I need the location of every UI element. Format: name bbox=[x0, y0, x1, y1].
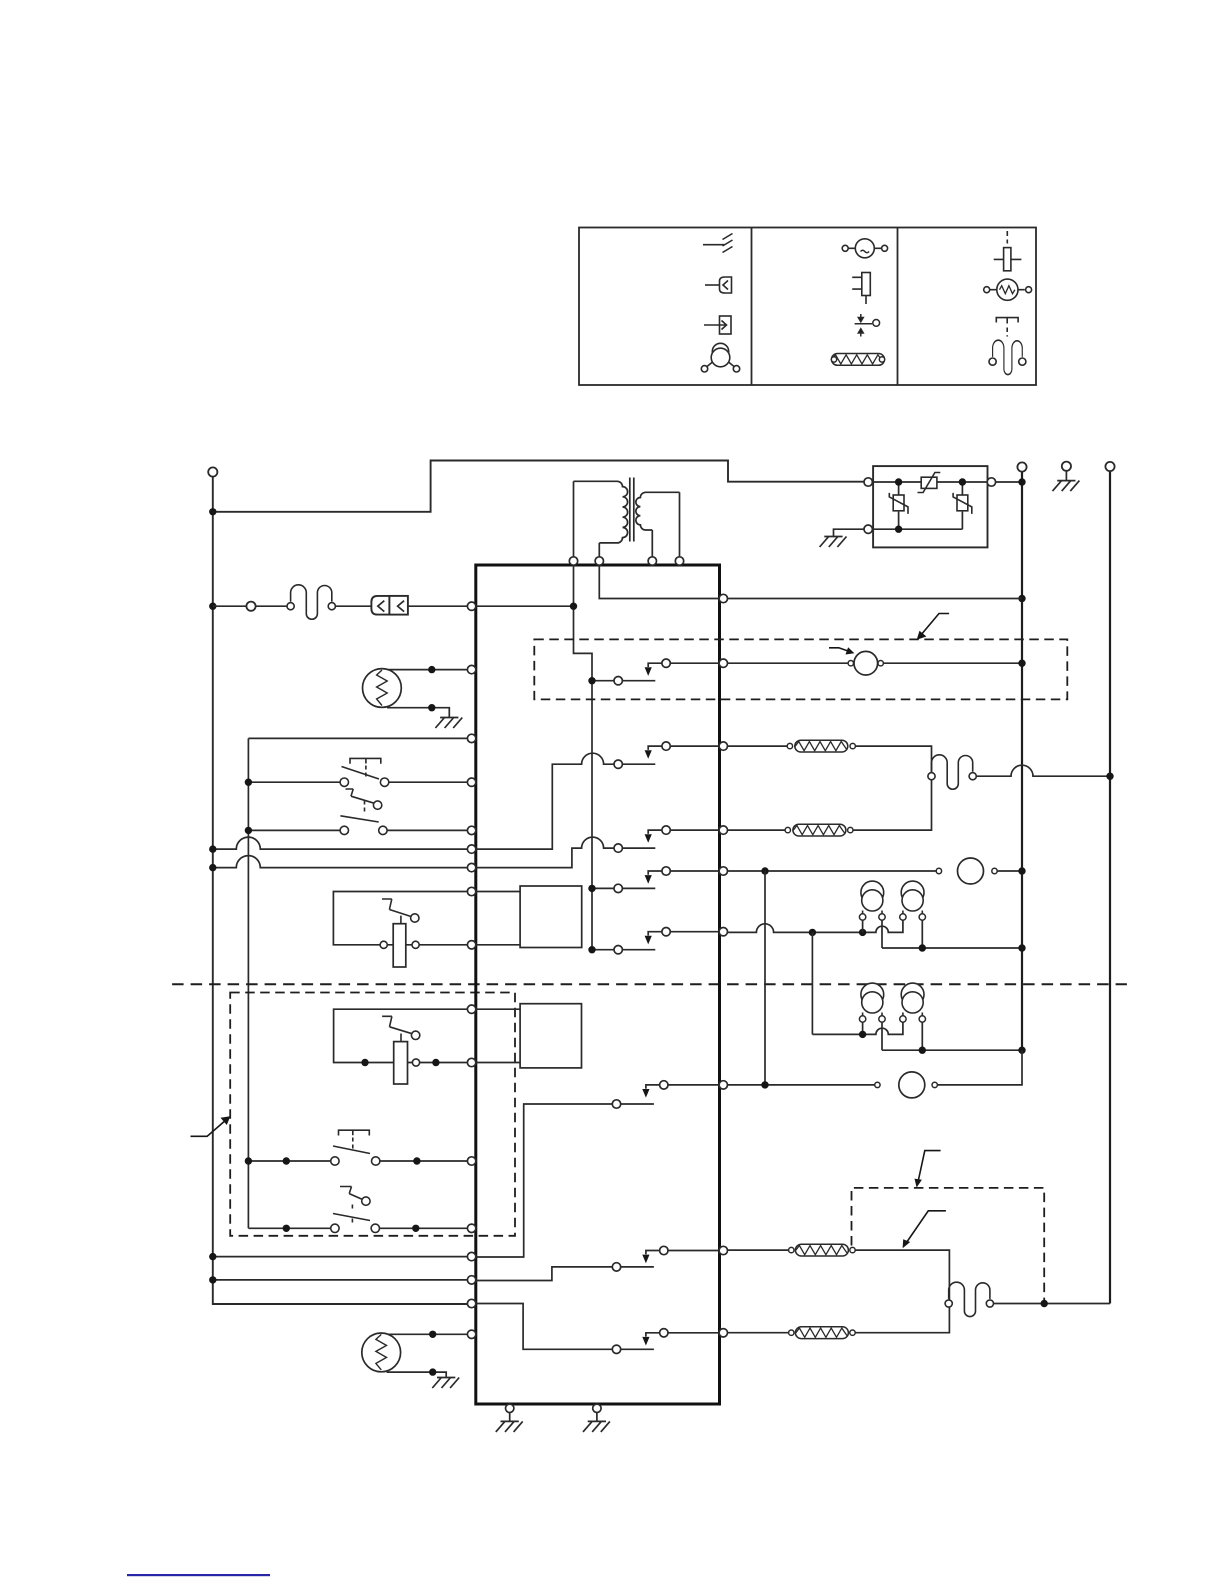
junction oven row2 b bbox=[412, 1225, 419, 1232]
pin PCB top 1 bbox=[569, 557, 577, 565]
junction TS2 left bbox=[361, 1059, 368, 1066]
relay contact: oven heater B bbox=[476, 1304, 720, 1354]
wire varistor internal bottom bbox=[872, 528, 962, 530]
heater H1 bbox=[795, 740, 848, 752]
junction V1 top bbox=[895, 478, 902, 485]
pin PCB left: row c bbox=[467, 1252, 475, 1260]
oven motor OM bbox=[899, 1072, 925, 1098]
door switch SW1 bbox=[340, 758, 389, 786]
pin PCB right: secondary return bbox=[719, 594, 727, 602]
dashed enclosure oven heater unit bbox=[852, 1188, 1045, 1304]
thermal fuse F1 bbox=[291, 585, 332, 619]
wire feed row c bbox=[213, 1256, 468, 1258]
dashed divider between halves bbox=[172, 983, 1127, 985]
junction bus / row c bbox=[209, 1253, 216, 1260]
junction V1 bottom bbox=[895, 526, 902, 533]
wire turntable motor row bbox=[728, 870, 1023, 872]
junction feed / oven row1 bbox=[245, 1157, 252, 1164]
legend: thermal fuse symbol bbox=[989, 340, 1026, 374]
junction TH2 top bbox=[429, 1331, 436, 1338]
legend column divider 1 bbox=[751, 228, 753, 386]
legend: heater symbol bbox=[832, 354, 885, 366]
wire lamp riser x=812 bbox=[811, 932, 813, 1034]
junction OL2 / lamp return bbox=[919, 944, 926, 951]
pin PCB right: heater upper bbox=[719, 742, 727, 750]
wire L1 top run bbox=[213, 461, 865, 512]
wire transformer secondary return bbox=[599, 565, 719, 599]
wire interlock feed vertical x=248 bbox=[247, 738, 249, 1228]
wire OL3 left stem bbox=[862, 1022, 864, 1034]
legend table frame bbox=[579, 228, 1036, 386]
pin PCB right: fan bbox=[719, 659, 727, 667]
varistor V1 leads bbox=[898, 482, 900, 529]
pin PCB left: TS1 a bbox=[467, 887, 475, 895]
splice on fuse row bbox=[246, 602, 255, 611]
pin PCB right: turntable motor bbox=[719, 867, 727, 875]
pin PCB left: door row1 bbox=[467, 778, 475, 786]
wire OL4 right drop bbox=[921, 1022, 923, 1050]
junction oven row1 a bbox=[283, 1157, 290, 1164]
varistor V2 leads bbox=[961, 482, 963, 529]
junction lower lamp row / OL3 bbox=[859, 1031, 866, 1038]
pin PCB bottom 1 bbox=[506, 1404, 514, 1412]
wire oven heater H3 row bbox=[728, 1250, 950, 1300]
legend: thermostat body symbol bbox=[852, 273, 870, 305]
wire monitor row bbox=[248, 737, 467, 739]
junction motor contact / riser bbox=[588, 885, 595, 892]
control unit PCB box bbox=[476, 565, 720, 1404]
pointer to fan motor bbox=[829, 647, 854, 654]
junction fan contact / riser bbox=[588, 677, 595, 684]
oven switch SW4 bbox=[331, 1130, 380, 1165]
legend: chassis ground symbol bbox=[703, 234, 733, 253]
legend: motor symbol bbox=[701, 343, 739, 372]
junction TH1 bottom bbox=[428, 704, 435, 711]
terminal L1 bbox=[208, 467, 217, 476]
wire oven lamp row (hops riser) bbox=[728, 920, 903, 932]
thermostat TS1 body bbox=[393, 924, 406, 967]
junction primary riser / mains bbox=[570, 603, 577, 610]
wire fan feed bbox=[728, 662, 849, 664]
display unit box lower bbox=[520, 1004, 581, 1068]
pointer to lower-left enclosure bbox=[191, 1116, 231, 1136]
wire thermistor TH1 top bbox=[387, 669, 468, 671]
wire oven switch row 1 bbox=[248, 1160, 467, 1162]
pin PCB top 4 bbox=[675, 557, 683, 565]
splice TS1 right bbox=[412, 941, 419, 948]
legend: thermistor symbol bbox=[984, 279, 1032, 300]
wire door switch row 1 bbox=[248, 781, 467, 783]
pin varistor box right bbox=[987, 478, 995, 486]
ground PCB 2 bbox=[583, 1421, 610, 1432]
junction oven motor row / riser bbox=[761, 1081, 768, 1088]
pin PCB left: oven row1 bbox=[467, 1157, 475, 1165]
thermistor TH1 bbox=[363, 669, 402, 708]
door switch SW2 monitor contact bbox=[346, 789, 382, 814]
pin PCB left: feed b bbox=[467, 863, 475, 871]
wire OL1 left stem bbox=[862, 920, 864, 932]
pin PCB top 2 bbox=[595, 557, 603, 565]
terminal bus A bbox=[1017, 462, 1026, 471]
junction motor row / riser bbox=[761, 867, 768, 874]
wire relay feed b (hops interlock feed) bbox=[213, 856, 468, 868]
relay contact: heater lower bbox=[476, 826, 720, 868]
relay contact: oven heater A bbox=[476, 1246, 720, 1280]
wire secondary return to bus A bbox=[728, 598, 1023, 600]
pin PCB left: TH2 bbox=[467, 1330, 475, 1338]
relay contact: oven motor bbox=[476, 1081, 720, 1257]
connector pair CN bbox=[371, 596, 408, 615]
pin PCB left: row d bbox=[467, 1276, 475, 1284]
pin varistor box left bottom bbox=[864, 525, 872, 533]
dashed enclosure fan unit bbox=[534, 639, 1067, 699]
wire display lower lead 2 bbox=[476, 1062, 520, 1064]
wire OL1 right drop bbox=[881, 920, 883, 948]
pin PCB left: TS2 b bbox=[467, 1058, 475, 1066]
terminal bus B bbox=[1105, 462, 1114, 471]
wire thermostat TS2 loop bbox=[334, 1009, 468, 1062]
wire thermostat TS1 loop bbox=[333, 892, 467, 945]
junction bus B / F2 bbox=[1106, 773, 1113, 780]
oven lamp OL1 bbox=[859, 881, 885, 920]
pin PCB right: oven heater B bbox=[719, 1329, 727, 1337]
footer rule bbox=[127, 1574, 270, 1576]
pin PCB right: oven motor bbox=[719, 1081, 727, 1089]
junction TH1 top bbox=[428, 666, 435, 673]
wire lamp return bbox=[882, 947, 1022, 949]
relay contact: oven lamp bbox=[592, 928, 720, 954]
oven lamp OL2 bbox=[900, 881, 926, 920]
bus A vertical x=1022 bbox=[1021, 472, 1023, 1051]
pin PCB left: TH1 bbox=[467, 665, 475, 673]
wire OL3 right drop bbox=[881, 1022, 883, 1050]
junction OL4 / return bbox=[919, 1047, 926, 1054]
wire F2 to bus B (hops bus A) bbox=[976, 765, 1110, 776]
splice TS2 right bbox=[412, 1059, 419, 1066]
wire oven switch row 2 bbox=[248, 1227, 467, 1229]
pin PCB bottom 2 bbox=[593, 1404, 601, 1412]
wire display upper lead 2 bbox=[476, 944, 520, 946]
junction row1 / feed bbox=[245, 779, 252, 786]
wire oven motor row bbox=[728, 1050, 1023, 1085]
varistor V1 bbox=[889, 493, 908, 514]
pin PCB left: oven row2 bbox=[467, 1224, 475, 1232]
junction lamp contact / riser bbox=[588, 946, 595, 953]
wire PCB internal: mains to relay common riser bbox=[476, 605, 574, 607]
wire display lower lead 1 bbox=[476, 1008, 520, 1010]
oven switch SW6 bbox=[331, 1214, 380, 1233]
wire fan return bbox=[883, 662, 1022, 664]
varistor V2 bbox=[953, 493, 972, 514]
pointer to oven heater unit bbox=[915, 1151, 941, 1188]
ground varistor bbox=[820, 537, 847, 548]
thermostat TS2 contact bbox=[382, 1016, 420, 1041]
wire thermistor TH1 bottom bbox=[387, 708, 449, 718]
ground PCB 1 bbox=[496, 1421, 523, 1432]
fan motor FM bbox=[854, 651, 878, 675]
junction V2 top bbox=[959, 478, 966, 485]
junction lamp row / OL1 left bbox=[859, 929, 866, 936]
wire varistor internal top bbox=[872, 481, 988, 483]
pin PCB left: TS2 a bbox=[467, 1005, 475, 1013]
wire OL2 right drop bbox=[921, 920, 923, 948]
heater H2 bbox=[793, 824, 846, 836]
varistor module box bbox=[873, 466, 987, 547]
pin PCB top 3 bbox=[648, 557, 656, 565]
legend: thermostat contact symbol bbox=[996, 318, 1018, 337]
wire oven heater H4 row bbox=[728, 1307, 950, 1333]
bus B vertical x=1110 bbox=[1109, 471, 1111, 1303]
pin PCB right: oven lamp bbox=[719, 928, 727, 936]
thermostat TS1 contact bbox=[382, 899, 419, 924]
junction bus A / fan return bbox=[1018, 660, 1025, 667]
junction left bus / fuse wire bbox=[209, 603, 216, 610]
ground TH1 bbox=[435, 718, 462, 729]
wire feed row d bbox=[213, 1279, 468, 1281]
junction oven row1 b bbox=[413, 1157, 420, 1164]
thermostat TS2 body bbox=[394, 1042, 408, 1084]
pin PCB right: oven heater A bbox=[719, 1246, 727, 1254]
junction TH2 bottom bbox=[429, 1368, 436, 1375]
display unit box upper bbox=[520, 886, 582, 948]
wire thermistor TH2 top bbox=[387, 1333, 468, 1335]
junction row2 / feed bbox=[245, 827, 252, 834]
pin varistor box left top bbox=[864, 478, 872, 486]
junction left bus / top run bbox=[209, 508, 216, 515]
turntable motor TTM bbox=[958, 858, 984, 884]
wire left bus bbox=[213, 477, 468, 1305]
legend: tab connector symbol bbox=[704, 316, 731, 334]
wire relay feed a (hops interlock feed) bbox=[213, 837, 468, 849]
junction bus A / lamp return bbox=[1018, 944, 1025, 951]
transformer T1 bbox=[574, 478, 680, 558]
relay contact: heater upper bbox=[476, 742, 720, 849]
door switch SW3 bbox=[340, 816, 387, 835]
pointer to fan unit bbox=[917, 614, 949, 640]
thermal fuse F3 bbox=[949, 1282, 990, 1316]
wire PCB ground stem 2 bbox=[596, 1413, 598, 1422]
heater H4 bbox=[795, 1327, 848, 1339]
pin PCB left: feed a bbox=[467, 845, 475, 853]
heater H3 bbox=[795, 1244, 848, 1256]
splice TS1 left bbox=[380, 941, 387, 948]
floating chassis ground terminal bbox=[1062, 462, 1071, 471]
wire heater H2 row bbox=[728, 780, 932, 830]
varistor V3 bbox=[918, 473, 941, 493]
relay contact: turntable motor bbox=[592, 867, 720, 893]
pin PCB left: monitor row bbox=[467, 734, 475, 742]
wire door switch row 2 bbox=[248, 829, 467, 831]
legend: thermal cutout symbol bbox=[994, 231, 1022, 271]
oven switch SW5 monitor contact bbox=[340, 1187, 370, 1226]
legend: receptacle connector symbol bbox=[705, 277, 732, 293]
junction bus A / secondary return bbox=[1018, 595, 1025, 602]
dashed enclosure lower-left bbox=[230, 993, 515, 1236]
thermal fuse F2 bbox=[932, 755, 973, 789]
wire lower lamp return bbox=[882, 1049, 1022, 1051]
pin PCB left: bus return bbox=[467, 1299, 475, 1307]
junction TS2 out bbox=[432, 1059, 439, 1066]
wire oven lamp row lower (hops OL3 right drop) bbox=[812, 1022, 903, 1034]
oven lamp OL3 bbox=[859, 983, 885, 1022]
wire F3 to bus B bbox=[994, 1303, 1111, 1305]
junction bus A / varistor bbox=[1018, 478, 1025, 485]
wire varistor ground lead bbox=[834, 529, 865, 536]
ground floating bbox=[1053, 481, 1080, 492]
pin PCB left: mains bbox=[467, 602, 475, 610]
ground TH2 bbox=[432, 1378, 459, 1389]
pin PCB left: door row2 bbox=[467, 826, 475, 834]
pointer to oven heater wire bbox=[903, 1211, 946, 1249]
junction bus / feed a bbox=[209, 845, 216, 852]
junction bus / row d bbox=[209, 1276, 216, 1283]
relay contact: fan bbox=[592, 659, 720, 685]
junction bus A / motor row bbox=[1018, 867, 1025, 874]
legend: contact symbol bbox=[855, 314, 880, 337]
junction bus A / lower lamp return bbox=[1018, 1047, 1025, 1054]
junction oven row2 a bbox=[283, 1225, 290, 1232]
wire PCB ground stem 1 bbox=[509, 1413, 511, 1422]
legend: AC motor symbol bbox=[842, 239, 887, 258]
wire transformer primary pin riser bbox=[574, 565, 593, 950]
pin PCB left: TS1 b bbox=[467, 941, 475, 949]
legend column divider 2 bbox=[897, 228, 899, 386]
junction F3 / dashed enclosure bbox=[1041, 1300, 1048, 1307]
oven lamp OL4 bbox=[900, 983, 926, 1022]
wire heater H1 row bbox=[728, 746, 932, 773]
wire display upper lead 1 bbox=[476, 891, 520, 893]
wire varistor out to bus A bbox=[996, 481, 1022, 483]
pin PCB right: heater lower bbox=[719, 826, 727, 834]
wire fuse row bbox=[213, 605, 468, 607]
junction lamp row / lamp riser bbox=[809, 929, 816, 936]
wire oven motor riser x=765 (hops lamp row) bbox=[764, 871, 766, 1085]
thermistor TH2 bbox=[362, 1333, 401, 1372]
wire thermistor TH2 bottom bbox=[387, 1372, 447, 1377]
junction bus / feed b bbox=[209, 864, 216, 871]
